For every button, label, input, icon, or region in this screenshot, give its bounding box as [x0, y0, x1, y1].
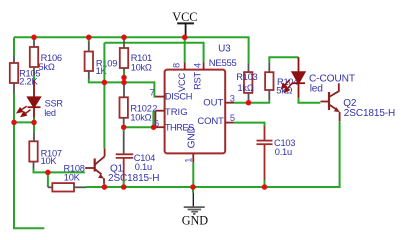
svg-text:GND: GND: [182, 213, 209, 227]
svg-text:0.1u: 0.1u: [275, 147, 292, 157]
svg-text:SSR: SSR: [45, 99, 64, 109]
svg-text:TRIG: TRIG: [165, 107, 188, 118]
svg-text:1K: 1K: [96, 66, 108, 76]
svg-text:2SC1815-H: 2SC1815-H: [344, 108, 395, 119]
svg-text:2.2K: 2.2K: [19, 77, 38, 87]
svg-text:CONT: CONT: [197, 116, 224, 127]
svg-text:led: led: [310, 84, 323, 95]
svg-text:10K: 10K: [41, 156, 58, 166]
svg-text:4: 4: [193, 63, 203, 68]
svg-text:1: 1: [183, 158, 193, 163]
svg-text:3: 3: [230, 94, 235, 104]
svg-text:10kΩ: 10kΩ: [131, 63, 152, 73]
svg-text:2: 2: [152, 103, 157, 113]
svg-text:10kΩ: 10kΩ: [130, 113, 151, 123]
svg-text:5kΩ: 5kΩ: [39, 62, 55, 72]
svg-text:2SC1815-H: 2SC1815-H: [108, 173, 159, 184]
svg-text:OUT: OUT: [203, 98, 223, 109]
svg-text:7: 7: [150, 87, 155, 97]
svg-text:0.1u: 0.1u: [135, 162, 152, 172]
svg-text:RST: RST: [193, 72, 203, 90]
svg-text:R103: R103: [236, 72, 257, 82]
svg-text:5: 5: [230, 113, 235, 123]
svg-text:10K: 10K: [64, 173, 81, 183]
svg-text:8: 8: [172, 63, 182, 68]
svg-text:DISCH: DISCH: [165, 92, 192, 102]
svg-text:VCC: VCC: [177, 73, 187, 92]
svg-text:led: led: [44, 108, 56, 118]
svg-text:VCC: VCC: [172, 10, 197, 24]
svg-text:1kΩ: 1kΩ: [238, 83, 254, 93]
svg-text:NE555: NE555: [209, 58, 237, 69]
svg-text:GND: GND: [186, 126, 197, 148]
svg-text:U3: U3: [218, 43, 231, 54]
